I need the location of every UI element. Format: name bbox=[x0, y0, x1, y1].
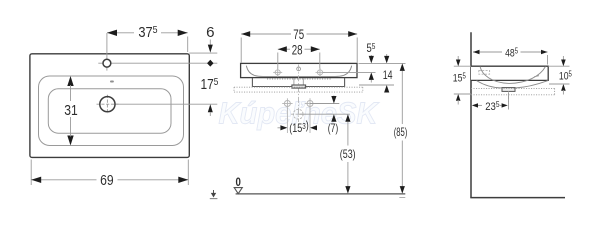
dimension 17.5 bbox=[201, 76, 219, 116]
front view: drain pipe sides bbox=[294, 78, 303, 85]
front view: bowl inner contour bbox=[246, 66, 351, 77]
svg-text:55: 55 bbox=[367, 41, 376, 55]
side view: overflow mark bbox=[534, 76, 539, 77]
tap hole centerlines bbox=[98, 33, 217, 71]
dimension 75 bbox=[241, 27, 357, 62]
level mark under left view bbox=[210, 190, 218, 199]
tap hole circle bbox=[103, 59, 111, 67]
dimension 48.5 bbox=[473, 46, 548, 64]
svg-text:155: 155 bbox=[453, 72, 467, 85]
side view: floor line bbox=[470, 197, 565, 199]
front view: basin slab bbox=[241, 63, 357, 77]
dimension 5.5 bbox=[323, 41, 376, 83]
drain circle front view bbox=[291, 109, 306, 119]
dimension 69 bottom bbox=[31, 160, 188, 190]
top view: basin bottom contour bbox=[48, 89, 171, 133]
bolt extension lines down bbox=[287, 108, 310, 133]
top view: outer rim rectangle bbox=[30, 54, 189, 158]
dimension 6 bbox=[189, 24, 217, 53]
side view: basin profile bbox=[471, 66, 548, 80]
drain circle bbox=[100, 97, 115, 112]
side view: wall line bbox=[470, 32, 472, 197]
bolt level extension line bbox=[310, 103, 339, 105]
svg-text:235: 235 bbox=[485, 100, 500, 113]
top view: overflow slot bbox=[110, 81, 114, 83]
svg-text:375: 375 bbox=[138, 24, 157, 41]
front view: right tap cross bbox=[316, 68, 325, 77]
front view: mounting bracket bbox=[252, 78, 344, 87]
side view: bowl contour bbox=[480, 67, 546, 84]
dimension 31 bbox=[64, 76, 78, 146]
dimension 10.5 bbox=[548, 56, 572, 95]
dimension 15.5 bbox=[453, 56, 471, 105]
svg-text:69: 69 bbox=[100, 172, 114, 189]
svg-text:75: 75 bbox=[293, 27, 304, 43]
slab top extension line right bbox=[359, 62, 406, 64]
dimension 28 bbox=[278, 42, 320, 68]
mounting bolt cross right bbox=[305, 98, 315, 108]
svg-text:14: 14 bbox=[383, 68, 393, 82]
svg-text:175: 175 bbox=[201, 76, 219, 93]
front view: hidden bowl underside bbox=[267, 78, 331, 80]
svg-text:(7): (7) bbox=[328, 121, 339, 135]
front view: drain flange bbox=[292, 85, 306, 88]
svg-text:(53): (53) bbox=[340, 147, 356, 161]
dimension (15.3) bbox=[278, 118, 318, 135]
svg-text:(153): (153) bbox=[289, 118, 309, 135]
front view: left tap cross bbox=[273, 68, 282, 77]
svg-text:105: 105 bbox=[559, 70, 573, 83]
diamond marker at tap line bbox=[208, 60, 213, 66]
dimension 37.5 top bbox=[107, 24, 188, 52]
svg-text:6: 6 bbox=[206, 24, 214, 41]
svg-text:(85): (85) bbox=[394, 125, 408, 139]
side view: drain flange bbox=[502, 88, 515, 92]
svg-text:0: 0 bbox=[236, 177, 241, 189]
side view: bowl underside bbox=[477, 81, 549, 88]
watermark KupelneSK bbox=[219, 96, 380, 131]
dimension 23.5 bbox=[472, 93, 509, 113]
mounting bolt cross left bbox=[282, 98, 292, 108]
dimension 14 bbox=[359, 54, 394, 93]
svg-text:28: 28 bbox=[292, 42, 303, 58]
dimension (7) vertical bbox=[328, 96, 339, 136]
drain level extension line bbox=[298, 113, 350, 115]
front view: overflow hole bbox=[297, 67, 301, 71]
side view: furniture dashed band bbox=[471, 88, 555, 94]
dimension (85) bbox=[394, 63, 408, 197]
top view: inner basin rim bbox=[39, 76, 184, 146]
side view: drain dashed centerline bbox=[508, 91, 510, 102]
svg-text:485: 485 bbox=[505, 46, 519, 59]
zero level label and triangle bbox=[234, 177, 242, 194]
front view: center line bbox=[298, 65, 300, 123]
drain centerlines bbox=[97, 95, 218, 114]
side view: tap hole hidden bbox=[479, 71, 490, 75]
svg-text:31: 31 bbox=[64, 102, 78, 119]
dimension (53) bbox=[340, 114, 356, 193]
ground line bbox=[236, 193, 406, 195]
front view: furniture dashed band bbox=[234, 87, 363, 92]
